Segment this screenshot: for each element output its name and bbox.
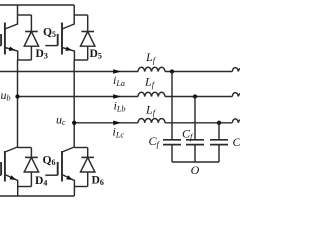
wire phase a line after inductor [165, 71, 232, 73]
transistor Q4 (lower IGBT, phase b leg, cut at left edge) [0, 147, 18, 196]
wire phase c leg vertical (node uc) [73, 60, 75, 147]
capacitor Cf (phase b) [186, 140, 204, 145]
node uc junction dot [72, 121, 76, 125]
diode D3 [24, 15, 38, 60]
wire neutral bus O [172, 161, 219, 163]
wire load coil start (phase b, cut at edge) [232, 93, 241, 97]
wire diode D3 top stub [18, 14, 32, 16]
diode D6 [81, 148, 95, 187]
capacitor Cf (phase a) [163, 140, 181, 145]
wire vertical from phase b node to capacitor [194, 97, 196, 140]
wire diode D4 bottom stub [18, 186, 32, 188]
wire load coil start (phase a, cut at edge) [232, 68, 241, 72]
wire load coil start (phase c, cut at edge) [232, 119, 241, 123]
wire capacitor b to neutral bus [194, 145, 196, 162]
node dot after Lf phase b [193, 94, 197, 98]
wire vertical from phase c node to capacitor [218, 123, 220, 140]
wire phase a output line [0, 71, 138, 73]
wire phase b line after inductor [165, 96, 232, 98]
wire diode D3 bottom stub [18, 59, 32, 61]
wire diode D6 top stub [74, 147, 88, 149]
node dot after Lf phase a [170, 69, 174, 73]
inductor Lf (phase b) [138, 92, 165, 96]
wire phase b output line [18, 96, 139, 98]
wire diode D5 top stub [74, 14, 88, 16]
wire phase c line after inductor [165, 122, 232, 124]
wire vertical from phase a node to capacitor [171, 72, 173, 140]
transistor Q6 (lower IGBT, phase c leg) [45, 147, 74, 196]
wire phase b leg vertical (node ub) [17, 60, 19, 147]
node ub junction dot [15, 94, 19, 98]
diode D4 [24, 148, 38, 187]
wire diode D5 bottom stub [74, 59, 88, 61]
inductor Lf (phase a) [138, 67, 165, 71]
wire capacitor c to neutral bus [218, 145, 220, 162]
diode D5 [81, 15, 95, 60]
arrow current iLb [113, 94, 121, 99]
node dot after Lf phase c [217, 121, 221, 125]
wire diode D6 bottom stub [74, 186, 87, 188]
transistor Q3 (upper IGBT, phase b leg, cut at left edge) [0, 5, 18, 60]
transistor Q5 (upper IGBT, phase c leg) [45, 5, 74, 60]
wire top DC+ rail [0, 4, 74, 6]
svg-text:O: O [191, 163, 200, 177]
arrow current iLc [113, 121, 121, 126]
inductor Lf (phase c) [138, 118, 165, 122]
wire phase c output line [74, 122, 138, 124]
svg-text:Cf: Cf [233, 135, 241, 150]
capacitor Cf (phase c) [210, 140, 228, 145]
wire bottom DC- rail [0, 195, 74, 197]
wire diode D4 top stub [18, 147, 32, 149]
arrow current iLa [113, 69, 121, 74]
wire capacitor a to neutral bus [171, 145, 173, 162]
